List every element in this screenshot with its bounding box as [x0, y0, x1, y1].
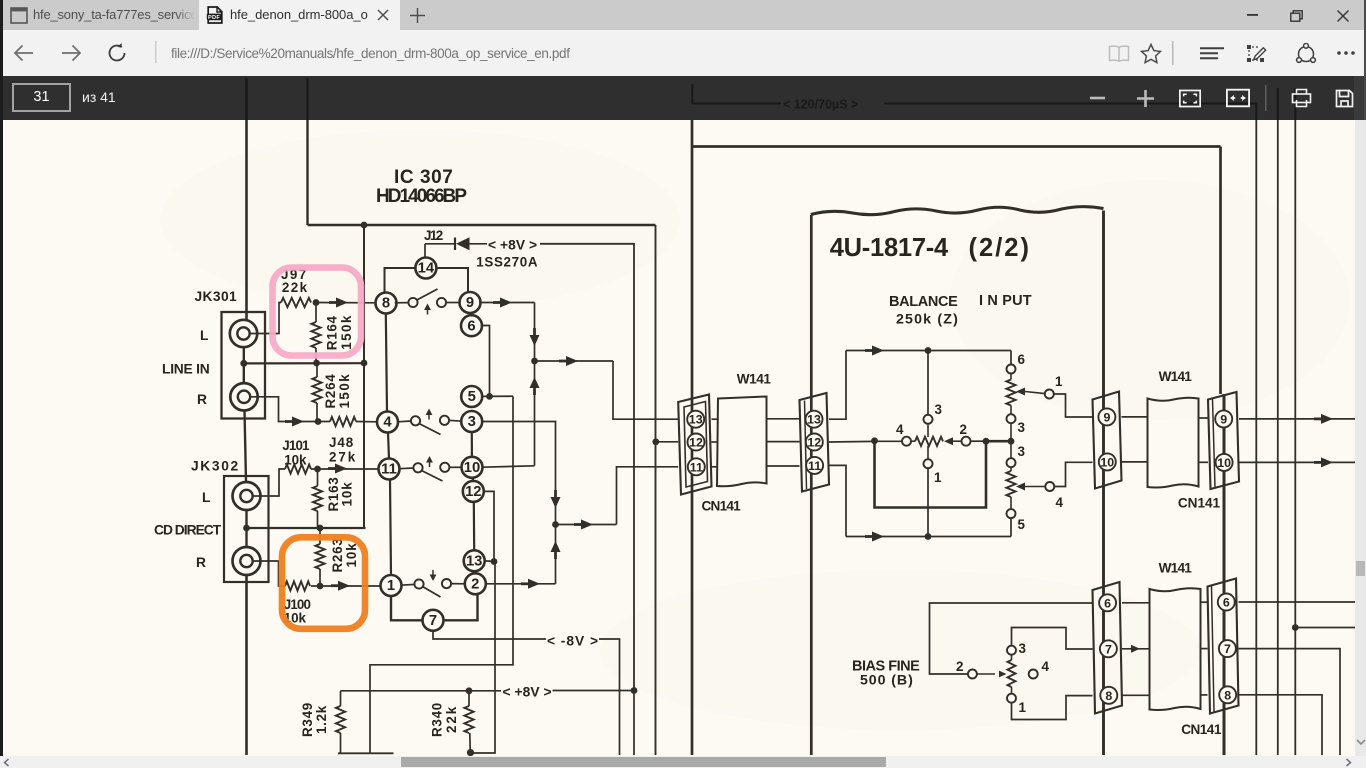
svg-text:3: 3: [935, 402, 942, 417]
wire rail pin12-pin13: [473, 502, 476, 551]
switch S3 contact b: [440, 463, 449, 472]
switch S3 control arrow: [429, 461, 431, 467]
wire switch to pin9: [446, 302, 459, 304]
svg-text:7: 7: [429, 613, 437, 629]
node junction J97/R164: [313, 299, 320, 306]
wire ground drop x364: [363, 225, 365, 528]
svg-text:4U-1817-4: 4U-1817-4: [830, 234, 949, 262]
svg-text:10: 10: [464, 460, 480, 476]
svg-text:4: 4: [383, 415, 392, 431]
wire node B output with arrow: [556, 524, 617, 526]
balance R-pot wiper terminal 4: [1045, 482, 1054, 491]
IC pin 3: [461, 411, 482, 432]
wire +8V feed right and down x634: [540, 244, 634, 691]
wire terminal3 to mid junction: [1010, 423, 1012, 441]
wire torn-sheet edge (wavy top): [811, 207, 1104, 215]
svg-text:R349: R349: [300, 703, 315, 737]
wire 2 to junction: [970, 440, 986, 442]
balance R-pot wiper terminal 1: [1045, 390, 1054, 399]
wire board boundary left x692: [691, 120, 694, 755]
window controls: [1247, 14, 1259, 17]
connector CN141 9/10 right body: [1208, 392, 1239, 489]
svg-text:13: 13: [689, 413, 703, 427]
print icon: [1288, 76, 1314, 120]
svg-text:J12: J12: [424, 228, 443, 243]
fullscreen icon: [1179, 76, 1201, 120]
connector pin 6 (left): [1099, 594, 1116, 611]
node junction R340 +8V: [466, 687, 473, 694]
switch S4 contact a: [414, 579, 423, 588]
IC pin 5: [461, 386, 482, 407]
wire drop to balance terminal 3: [927, 351, 929, 415]
connector pin 7 (right): [1219, 640, 1236, 657]
wire rail pin4-pin11: [388, 432, 389, 459]
wire rail pin8-pin4: [386, 313, 387, 412]
svg-text:10: 10: [1217, 456, 1231, 470]
node junction x1295: [1292, 624, 1299, 631]
balance wiper arrow: [944, 437, 953, 445]
resistor J48 27k: [330, 417, 356, 426]
svg-text:W141: W141: [1159, 561, 1193, 576]
node junction bottom feed x928: [925, 533, 932, 540]
connector pin 10 (right): [1216, 454, 1233, 471]
connector pin 9 (right): [1215, 410, 1232, 427]
svg-text:9: 9: [466, 295, 474, 311]
connector CN141 6/7/8 right body: [1208, 579, 1239, 714]
wire 11-11 stub: [712, 466, 719, 468]
wire J101 to pin11 with arrow: [311, 468, 379, 470]
wire output corner to CN141 pin13: [613, 361, 678, 419]
wire x513 long drop: [370, 396, 513, 753]
wire board boundary right x1220: [1219, 147, 1222, 395]
switch S2 lever: [419, 424, 441, 435]
node junction on y225 at x364: [361, 222, 368, 229]
svg-text:6: 6: [1104, 596, 1111, 610]
svg-text:13: 13: [466, 553, 482, 569]
wire pin3 output: [482, 422, 556, 525]
svg-text:BALANCE: BALANCE: [889, 294, 958, 310]
svg-text:8: 8: [1105, 689, 1112, 703]
wire J48 to pin4: [356, 421, 377, 423]
wiper 1 arrow (R-pot upper): [1016, 388, 1025, 396]
svg-text:6: 6: [1223, 596, 1230, 610]
svg-text:< +8V >: < +8V >: [503, 685, 552, 700]
wire pin13 output up-over with arrow: [829, 351, 846, 420]
highlight pink (J97/R164): [273, 268, 362, 356]
svg-text:I N PUT: I N PUT: [979, 293, 1032, 309]
svg-text:R164: R164: [325, 315, 340, 350]
svg-text:6: 6: [467, 318, 475, 334]
svg-text:1: 1: [934, 470, 942, 485]
wire jack rail between JK301 jacks: [243, 347, 245, 383]
wire 6 to track: [1010, 373, 1012, 379]
wire J12 diode line left: [425, 243, 455, 245]
scrollbars: [1355, 120, 1366, 756]
svg-text:R263: R263: [330, 539, 345, 573]
svg-text:12: 12: [465, 484, 481, 500]
reading list book (disabled): [1108, 45, 1130, 62]
connector pin 11 (CN141-R): [806, 457, 823, 474]
svg-text:3: 3: [1018, 444, 1025, 459]
wire JK301-R lead: [251, 397, 285, 422]
IC pin 10: [462, 457, 483, 478]
svg-text:3: 3: [468, 414, 476, 430]
svg-text:W141: W141: [1159, 369, 1193, 384]
wire rail pin10-pin12: [471, 478, 474, 482]
bias pot track: [1011, 655, 1013, 660]
wire JK301-L lead: [250, 303, 281, 334]
wire wavy box right x1103: [1102, 211, 1105, 756]
wire terminal to lower track: [1010, 467, 1012, 471]
connector JK301 box: [222, 312, 266, 419]
wire bias 3 loop to pin7: [1012, 628, 1093, 650]
connector pin 10 (left): [1099, 453, 1116, 470]
wire jack rail between JK302 jacks: [245, 511, 247, 546]
wire lower track to terminal 5: [1010, 497, 1012, 509]
svg-text:< +8V >: < +8V >: [488, 238, 537, 253]
node junction LINE bus at jack: [240, 360, 247, 367]
bias terminal 3: [1007, 646, 1016, 655]
wire ghost 120/70uS feeder with label: [694, 84, 1256, 120]
wire 12-12 stub: [712, 441, 719, 443]
wire JK302-R lead: [253, 561, 285, 586]
svg-text:7: 7: [1105, 642, 1112, 656]
address bar: [0, 30, 1366, 76]
wire ghost vertical x1295: [1294, 88, 1296, 120]
switch S1 contact a: [408, 298, 417, 307]
wire pin6 output to right edge: [1239, 601, 1356, 603]
wire ghost corner down x1256: [1255, 104, 1257, 121]
svg-text:1: 1: [387, 578, 395, 594]
IC pin 13: [464, 550, 485, 571]
wire ghost vertical from page top at x307: [306, 78, 308, 120]
node junction R163/R263 on bus: [317, 525, 324, 532]
bias terminal 4: [1029, 670, 1038, 679]
connector CN141 6/7/8 left body: [1093, 582, 1123, 714]
resistor R164 150k: [315, 303, 317, 323]
svg-text:1: 1: [1055, 374, 1063, 389]
RCA jack JK301-L: [230, 320, 257, 347]
balance R-pot terminal 6: [1007, 365, 1016, 374]
new tab +: [410, 8, 425, 23]
more dots: [1337, 51, 1355, 55]
resistor R264 150k: [316, 363, 318, 377]
wire 6-6 stub: [1122, 602, 1150, 604]
cable W141 (right): [1148, 398, 1199, 488]
switch S3 contact a: [413, 463, 422, 472]
wire pin2 output with arrow: [486, 583, 556, 585]
signal arrow down into node A: [533, 328, 536, 336]
node junction bypass right: [983, 438, 990, 445]
IC pin 9: [460, 292, 481, 313]
wire 9-9 stub: [1122, 416, 1148, 418]
RCA jack JK302-R: [233, 547, 261, 575]
switch S2 control arrow: [428, 414, 430, 420]
svg-text:R264: R264: [323, 374, 338, 409]
node B junction pins3/2: [552, 521, 559, 528]
wire pin9 output to right edge: [1239, 418, 1355, 420]
wire bottom ground bus: [338, 752, 394, 754]
wire rise to balance terminal 1: [927, 468, 929, 536]
connector pin 12 (CN141-L): [688, 434, 705, 451]
svg-text:8: 8: [1224, 688, 1231, 702]
resistor R263 10k: [319, 528, 321, 544]
resistor J100 10k: [285, 581, 310, 590]
balance terminal 3 (top): [924, 415, 933, 424]
wire pin12 output to node: [829, 440, 875, 443]
IC pin 1: [381, 575, 402, 596]
wire +8V bottom rail: [341, 690, 502, 692]
svg-text:10k: 10k: [340, 482, 355, 507]
wire switch to pin2: [451, 583, 465, 585]
potentiometer BALANCE 250k track: [915, 437, 943, 446]
node junction x656 pin12 feed: [652, 438, 659, 445]
svg-text:9: 9: [1220, 412, 1227, 426]
wire x1295 branch to right edge: [1295, 627, 1355, 629]
node junction J101/R163: [314, 466, 321, 473]
svg-text:11: 11: [381, 462, 397, 478]
wire +8V to x634 junction: [553, 690, 635, 692]
node junction pot column mid: [1008, 438, 1015, 445]
balance terminal 1 (bottom): [924, 459, 933, 468]
RCA jack JK301-R: [230, 383, 257, 410]
svg-text:R: R: [196, 555, 206, 570]
svg-text:W141: W141: [737, 372, 772, 387]
resistor R340 22k: [468, 691, 470, 706]
switch S2 contact a: [411, 416, 420, 425]
wire diode to +8V: [470, 243, 488, 245]
wire pin1 to switch: [401, 583, 414, 586]
connector pin 7 (left): [1100, 640, 1117, 657]
wire pin14 bus: [385, 268, 469, 293]
wire pin11 to switch: [399, 467, 414, 470]
inactive tab: [0, 0, 199, 30]
svg-text:13: 13: [807, 413, 821, 427]
signal arrow down into node B: [554, 490, 557, 498]
wire wiper1 to CN141 pin9: [1054, 394, 1093, 417]
switch S4 control arrow: [432, 570, 434, 576]
wire long vertical x1256: [1255, 120, 1257, 755]
wire corner down to pot column: [1010, 351, 1012, 365]
svg-text:4: 4: [1056, 495, 1064, 510]
svg-text:CD DIRECT: CD DIRECT: [154, 523, 222, 538]
wire IC307 control feed vertical x307: [306, 120, 308, 225]
wire jack rail JK301 to JK302: [245, 411, 247, 482]
wire pin11 output down-over with arrow: [829, 465, 846, 536]
save icon: [1331, 76, 1357, 120]
resistor J101 10k: [285, 464, 311, 473]
node junction R264 bottom: [315, 418, 322, 425]
node junction R340 bottom: [467, 749, 474, 756]
connector pin 8 (left): [1100, 687, 1117, 704]
bias terminal 1: [1007, 694, 1016, 703]
wire 8-8 stub: [1122, 694, 1150, 696]
switch S4 lever: [423, 587, 441, 598]
IC pin 7: [423, 610, 444, 631]
node junction CD bus at jack: [243, 525, 250, 532]
wire switch to pin3: [449, 419, 462, 422]
forward: [61, 44, 82, 62]
resistor J97 22k: [281, 298, 311, 307]
svg-text:8: 8: [382, 296, 390, 312]
cable W141 (bottom): [1150, 588, 1201, 710]
switch S3 lever: [422, 471, 443, 482]
scrollbar up chevron: [1355, 79, 1365, 86]
connector pin 13 (CN141-R): [806, 411, 823, 428]
node junction R164/R264 on bus: [313, 360, 320, 367]
node junction +8V x634: [631, 687, 638, 694]
wire -8V corner down x619: [599, 639, 620, 755]
svg-text:22k: 22k: [282, 280, 308, 295]
svg-text:R340: R340: [430, 703, 445, 737]
zoom-in plus: [1134, 76, 1156, 120]
svg-text:< -8V >: < -8V >: [547, 634, 598, 649]
svg-text:250k (Z): 250k (Z): [896, 312, 958, 328]
svg-text:11: 11: [690, 460, 703, 474]
svg-text:500 (B): 500 (B): [860, 673, 913, 689]
wire pin4 to switch: [398, 420, 412, 423]
cable W141 (left): [717, 397, 767, 487]
wire JK302-L lead: [253, 469, 285, 496]
svg-text:11: 11: [808, 459, 821, 473]
wire tap 1 to track: [927, 446, 929, 460]
connector pin 13 (CN141-L): [687, 411, 704, 428]
RCA jack JK302-L: [233, 482, 261, 510]
wire x494 drop to bottom bus: [471, 562, 496, 754]
wire pin10 output to right edge: [1239, 461, 1355, 463]
back: [13, 44, 34, 62]
balance R-pot terminal 3 (lower): [1007, 458, 1016, 467]
switch S1 contact b: [437, 298, 446, 307]
connector CN141 9/10 left body: [1093, 392, 1122, 489]
connector pin 6 (right): [1218, 594, 1235, 611]
wire wavy box left x810: [810, 215, 813, 755]
wire node A output with arrow: [535, 360, 614, 362]
svg-text:1.2k: 1.2k: [314, 705, 329, 734]
wire bypass to pot column: [986, 440, 1011, 443]
wire 10-10 stub: [1122, 461, 1148, 463]
highlight orange (R263/J100): [282, 537, 365, 629]
wire pin1-pin7-pin2 loop: [391, 596, 423, 621]
svg-text:10k: 10k: [344, 543, 359, 568]
refresh: [106, 42, 128, 64]
IC pin 12: [463, 481, 484, 502]
wire rail pin3-pin10: [471, 432, 473, 457]
potentiometer R-track lower: [1006, 471, 1015, 497]
wire ghost 120/70uS feeder left corner: [692, 84, 781, 104]
svg-text:IC 307: IC 307: [394, 167, 453, 188]
wire jack ground rail top segment x246: [245, 120, 248, 320]
wire J12 drop to pin14: [424, 244, 426, 258]
svg-text:CN141: CN141: [1181, 722, 1222, 737]
star: [1140, 43, 1162, 64]
node junction J100/R263: [317, 583, 324, 590]
bias wiper arrow: [977, 673, 995, 675]
IC pin 11: [379, 459, 400, 480]
svg-text:22k: 22k: [444, 706, 459, 733]
svg-text:150k: 150k: [337, 374, 352, 409]
IC pin 6: [461, 315, 482, 336]
switch S2 contact b: [440, 416, 449, 425]
connector JK302 box: [224, 476, 269, 582]
connector pin 8 (right): [1219, 686, 1236, 703]
svg-text:CN141: CN141: [702, 499, 742, 514]
wire J100 to pin1 with arrow: [311, 585, 381, 587]
connector pin 11 (CN141-L): [688, 458, 705, 475]
wire ghost vertical x1277: [1277, 88, 1279, 120]
resistor R349 1.2k: [340, 691, 342, 706]
wire output corner to CN141 pin11: [617, 467, 679, 525]
switch S1 lever: [417, 289, 438, 300]
svg-text:L: L: [200, 328, 208, 343]
wire ghost vertical x307 under toolbar: [306, 78, 308, 120]
svg-text:1SS270A: 1SS270A: [476, 255, 538, 270]
resistor R163 10k: [317, 469, 319, 486]
wire pin7 output corner down: [1239, 649, 1341, 755]
PDF viewer toolbar: [0, 76, 1366, 120]
svg-text:150k: 150k: [339, 315, 354, 350]
wire pin6 drop: [481, 326, 490, 397]
wire x634 continues to page bottom: [633, 691, 635, 756]
wire node A to x534 bottom corner to pin10: [482, 466, 534, 467]
svg-text:4: 4: [896, 422, 904, 437]
node junction balance left: [871, 437, 878, 444]
wire wiper4 to CN141 pin10: [1054, 462, 1092, 486]
svg-text:2: 2: [471, 576, 479, 592]
svg-text:9: 9: [1103, 410, 1110, 424]
wire IC307 control feed horizontal y225: [308, 224, 656, 226]
wire tap 3 to track: [927, 424, 929, 437]
IC pin 14: [415, 258, 436, 279]
wire pin9 output with arrow: [479, 302, 534, 304]
potentiometer R-track upper: [1006, 380, 1015, 406]
wire bus x1224 through connectors: [1223, 394, 1226, 755]
svg-text:10: 10: [1100, 455, 1114, 469]
balance terminal 2 (right): [962, 437, 971, 446]
wire pin13 stub to junction: [484, 560, 494, 563]
connector CN141-right body: [800, 393, 830, 492]
svg-text:3: 3: [1019, 641, 1026, 656]
wire 4 to track: [911, 440, 915, 442]
connector pin 9 (left): [1098, 408, 1115, 425]
node junction at pin5: [486, 393, 493, 400]
tab bar: [0, 0, 1366, 30]
svg-text:7: 7: [1224, 642, 1231, 656]
fit width icon: [1226, 76, 1250, 120]
svg-text:6: 6: [1018, 352, 1025, 367]
zoom-out minus: [1086, 76, 1108, 120]
wire pin7 to -8V: [433, 631, 546, 640]
wire J97 to pin8 with arrow: [316, 302, 374, 304]
svg-text:J48: J48: [329, 435, 354, 450]
wire 7-7 stub: [1122, 648, 1150, 650]
hub lines: [1200, 47, 1224, 60]
switch S4 contact b: [442, 579, 451, 588]
svg-text:J101: J101: [282, 438, 310, 453]
svg-text:4: 4: [1042, 659, 1050, 674]
svg-text:JK301: JK301: [195, 289, 238, 304]
wire ghost vertical x246 under toolbar: [245, 78, 248, 120]
svg-text:12: 12: [689, 436, 703, 450]
wire long vertical x1278: [1277, 120, 1279, 755]
wire board boundary top: [692, 145, 1221, 148]
signal arrow up into node A: [533, 387, 536, 395]
svg-text:3: 3: [1018, 420, 1025, 435]
wire bias 2 loop to pin6: [930, 603, 1093, 674]
wire pin5 node to x513: [482, 395, 513, 397]
node junction right of pin13: [491, 558, 498, 565]
wire switch to pin10: [449, 466, 462, 468]
